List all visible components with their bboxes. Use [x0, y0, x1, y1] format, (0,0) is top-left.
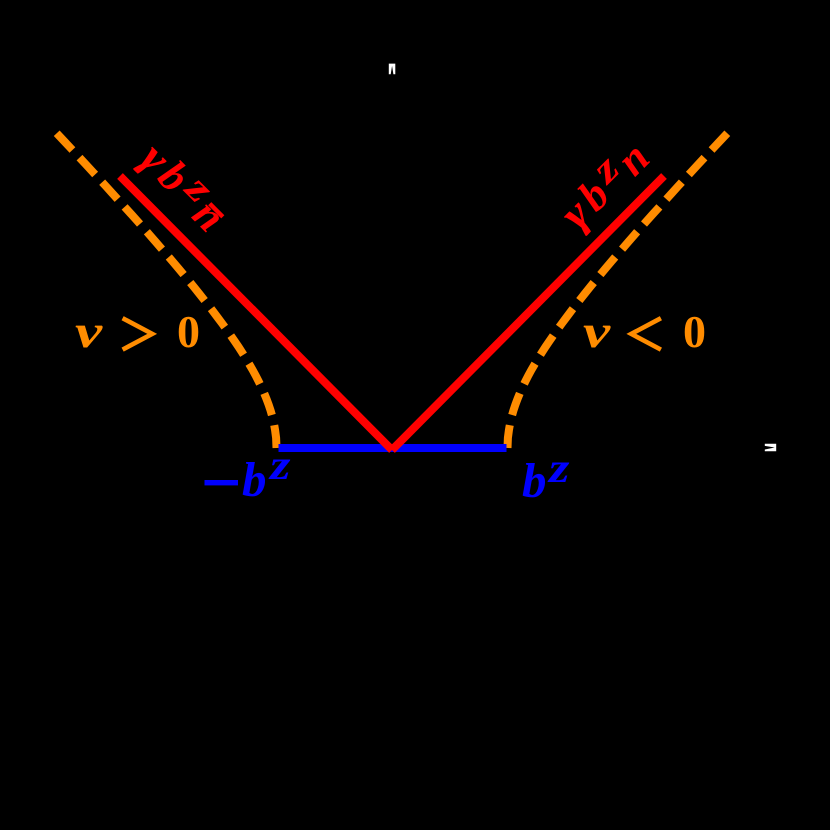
- svg-text:z: z: [268, 443, 291, 489]
- x-axis arrowhead (white, pointing right): [765, 444, 776, 452]
- svg-text:b: b: [522, 453, 547, 508]
- left red line (slope +1): [120, 176, 392, 450]
- label v < 0 (orange, right): [583, 305, 706, 358]
- svg-text:0: 0: [177, 306, 200, 357]
- minus sign: [205, 480, 239, 485]
- blue segment from -b^z to b^z: [279, 444, 507, 452]
- greater-than sign: [123, 318, 153, 349]
- label b^z (blue, right of origin): [522, 446, 570, 508]
- svg-text:z: z: [547, 446, 570, 492]
- right dashed dispersion curve (orange, v<0 branch): [508, 133, 728, 448]
- svg-text:v: v: [583, 305, 611, 358]
- svg-text:0: 0: [683, 306, 706, 357]
- label gamma b^z nbar (red, rotated 45deg, left): [129, 128, 242, 241]
- less-than sign: [631, 318, 661, 349]
- left dashed dispersion curve (orange, v>0 branch): [57, 133, 277, 448]
- label -b^z (blue, left of origin): [205, 443, 291, 507]
- right red line (slope -1): [392, 176, 664, 450]
- label gamma b^z n (red, rotated -45deg, right): [544, 126, 658, 240]
- label v > 0 (orange, left): [75, 305, 200, 358]
- svg-text:b: b: [242, 452, 267, 507]
- macron bar over n: [210, 204, 223, 217]
- svg-text:v: v: [75, 305, 103, 358]
- y-axis arrowhead (white, pointing up): [389, 64, 396, 75]
